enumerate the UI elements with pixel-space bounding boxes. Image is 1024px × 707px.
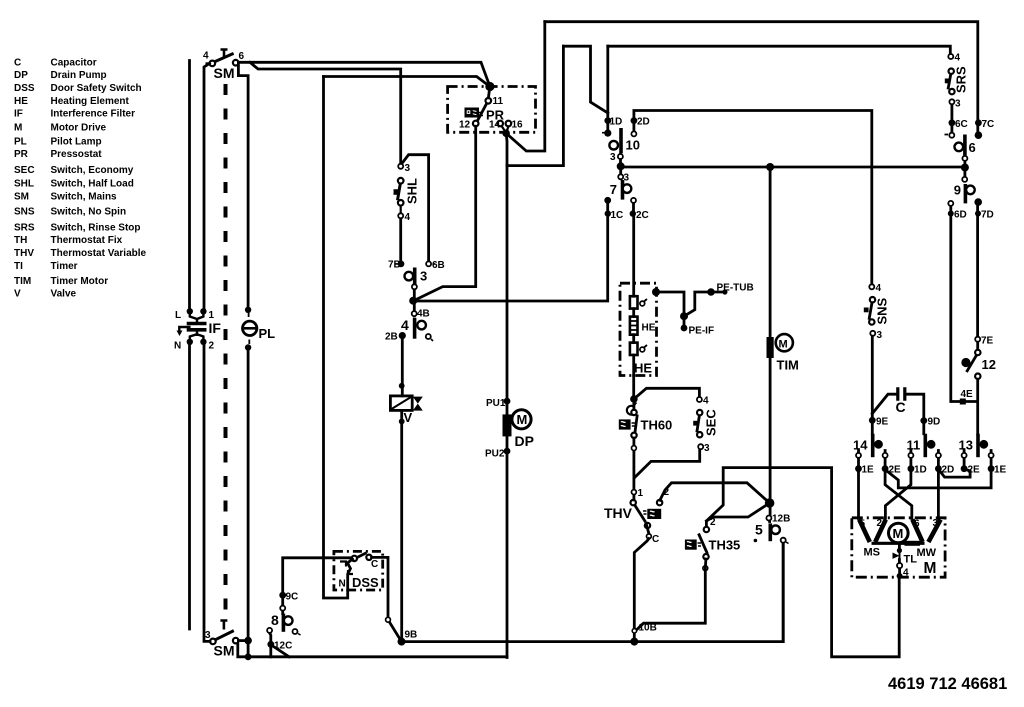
node: 9B junction [398,638,406,646]
svg-text:SM: SM [14,192,29,203]
svg-text:12C: 12C [274,641,292,652]
wire: contact7 terminals down [608,203,634,212]
svg-text:Pressostat: Pressostat [51,149,103,160]
terminal 6C [949,119,956,126]
svg-text:Switch, No Spin: Switch, No Spin [51,207,127,218]
timer contact 6 [963,135,967,156]
wire: bus2 SM bottom to DP column [238,644,507,657]
svg-text:1D: 1D [610,117,623,128]
svg-text:DSS: DSS [352,575,379,590]
wire: mains N lower left vertical [188,342,191,629]
wire: capacitor branch from SNS line [872,394,896,413]
wire: IF terminal 2 down to SM bottom contact 3 [204,342,210,641]
svg-text:7C: 7C [982,119,995,130]
wire: DSS left wire to 9C / contact 8 column [283,558,352,592]
svg-text:8: 8 [271,612,279,628]
wire: PR box junction down to contact 11 [488,87,490,98]
svg-text:L: L [175,310,181,321]
svg-text:1D: 1D [914,465,927,476]
svg-text:PU1: PU1 [486,398,506,409]
wire: SM6 to SHL line [250,62,401,164]
svg-text:Thermostat Variable: Thermostat Variable [51,248,147,259]
svg-text:N: N [174,341,181,352]
svg-text:11: 11 [907,438,921,453]
wire: SM bottom right contact stub to PL column [238,639,248,642]
timer contact 10 [604,117,611,124]
thermostat TH35 [699,527,710,571]
wire: line B left corner down to 1D [606,46,609,130]
wire: DSS feed vertical [324,77,348,599]
terminal 9E [869,417,876,424]
timer contact 7 [618,174,623,179]
svg-text:SRS: SRS [14,223,35,234]
door safety switch DSS internals [340,553,372,574]
interference filter IF [179,314,206,339]
wire: motor TL lead down inside box [898,546,901,575]
wire: contact10 lower stub [619,155,622,175]
node: junction 6/9 [961,164,969,172]
switch SHL (half load) [394,178,404,213]
node: PR top junction [485,82,494,91]
svg-text:TI: TI [14,261,23,272]
node: 10B junction [630,638,638,646]
svg-text:6: 6 [239,51,245,62]
wire: TIM to contact 5 junction [769,358,772,516]
svg-text:HE: HE [642,323,656,334]
svg-text:12: 12 [459,120,471,131]
svg-text:MW: MW [917,547,937,559]
door contact 12 [975,350,980,355]
svg-text:Interference Filter: Interference Filter [51,109,136,120]
svg-text:Valve: Valve [51,289,77,300]
svg-text:13: 13 [959,438,973,453]
svg-text:Drain Pump: Drain Pump [51,70,107,81]
wire: 2C column down into HE box [632,215,635,297]
svg-text:PE-TUB: PE-TUB [717,283,754,294]
wire: t4 to t5 2E link [939,469,970,477]
svg-text:16: 16 [512,120,524,131]
heating element HE dashed box [620,283,657,375]
svg-text:PL: PL [14,137,27,148]
svg-text:Door Safety Switch: Door Safety Switch [51,83,142,94]
svg-text:2B: 2B [385,332,398,343]
svg-text:SEC: SEC [14,165,35,176]
wire: SEC bottom bracket to THV column [635,449,700,478]
svg-text:SNS: SNS [14,207,35,218]
wire: x545 vertical down to PR 14/16 [506,22,545,151]
wire: top line A from x545 to 7C [545,22,978,132]
svg-text:4B: 4B [417,309,430,320]
wire: THV common C down to 10B [634,525,649,642]
wire: 12C column [270,633,271,657]
svg-text:12: 12 [982,357,996,372]
wire: 2B dot down to valve V [401,338,404,396]
svg-text:THV: THV [604,505,633,521]
pressostat PR dashed box [448,87,536,133]
svg-text:3: 3 [933,518,939,529]
wire: 6D column down to 4E bracket [951,206,978,402]
svg-text:TIM: TIM [777,358,799,373]
svg-text:6C: 6C [955,119,968,130]
wire: SRS 3 down to 6C [951,105,954,121]
wire: bus1 from 9B to contact5 column [402,543,784,642]
wire: TH60 bracket to SEC top [634,388,700,399]
timer contact 3 [398,261,405,268]
svg-text:10B: 10B [639,623,657,634]
motor M windings [859,520,940,543]
svg-text:SHL: SHL [405,178,420,204]
svg-text:PR: PR [14,149,29,160]
switch SM (mains, bottom half) [210,621,238,645]
wire: TH35 upper 2 to motor bottom loop [706,468,899,657]
svg-text:14: 14 [489,120,501,131]
switch SM (mains, top half) [206,50,239,67]
wire: pi-bar link [563,46,607,113]
switch SNS (no spin) [869,297,875,325]
svg-text:V: V [404,410,413,425]
svg-text:7: 7 [610,182,617,197]
wire: PE-TUB earth [656,292,725,316]
svg-text:2C: 2C [636,210,649,221]
wire: t2 2E to motor 6 crossing [885,458,912,519]
svg-text:9E: 9E [876,417,889,428]
svg-text:Timer Motor: Timer Motor [51,276,109,287]
svg-text:M: M [893,526,904,541]
svg-text:Pilot Lamp: Pilot Lamp [51,137,102,148]
wire: PR 14/16 down DP column to PU1 [505,133,509,452]
svg-text:2E: 2E [889,465,902,476]
wire: timer y167 line [621,166,965,169]
wire: t1 1E column to motor 5 [857,458,860,519]
wire: TH60 lower contact down to THV [633,438,636,500]
svg-text:7E: 7E [981,336,994,347]
svg-text:3: 3 [955,99,961,110]
wire: PE-IF stub [683,316,686,326]
wire: SHL switch to 7B [399,218,402,262]
svg-text:2: 2 [209,341,215,352]
wire: TIM column [769,167,772,337]
wire: PL column lower part to SM bottom area [247,351,250,658]
wire: contact5 junction stub / 12B [768,521,771,522]
svg-text:N: N [339,579,346,590]
wire: 7E to contact 12 upper [976,342,979,351]
wire: 2D terminal up and right to SNS [634,111,872,286]
wire: 12C diagonal to bus2 [272,646,289,657]
switch SEC (economy) [697,410,703,438]
svg-text:SRS: SRS [954,66,969,93]
svg-text:4: 4 [203,51,209,62]
svg-text:4: 4 [405,212,411,223]
svg-text:7B: 7B [388,260,401,271]
svg-text:7D: 7D [981,210,994,221]
node: junction below contact 3 [409,297,417,305]
svg-text:3: 3 [610,152,616,163]
wire: 6C to contact 6 [951,125,954,133]
svg-text:6: 6 [969,140,976,155]
svg-text:3: 3 [405,163,411,174]
svg-text:1C: 1C [611,210,624,221]
svg-text:TL: TL [904,554,918,566]
svg-text:4619 712 46681: 4619 712 46681 [888,675,1007,693]
svg-text:SM: SM [214,65,235,81]
wire: TH35 upper 2 to contact5 junction [706,503,769,521]
terminal 7C [975,119,982,126]
legend table [14,58,147,300]
svg-text:IF: IF [209,320,222,336]
wire: THV contact 2 to TH35 junction line [660,483,770,503]
svg-text:DP: DP [14,70,28,81]
terminal 4E [960,399,966,405]
wire: DP bottom to bus2 [506,452,509,658]
timer contact 11 [923,434,927,458]
pressostat PR contacts [473,98,511,131]
svg-text:1E: 1E [994,465,1007,476]
motor M dashed box [852,518,945,577]
timer contact 8 [279,592,286,599]
timer motor TIM [766,163,774,171]
svg-text:PE-IF: PE-IF [689,326,715,337]
svg-text:11: 11 [493,96,504,107]
timer contact 9 [962,177,967,182]
svg-text:2: 2 [877,518,883,529]
svg-text:9C: 9C [286,592,299,603]
svg-text:V: V [14,289,21,300]
svg-text:1: 1 [638,488,644,499]
svg-text:M: M [924,560,937,577]
svg-text:4E: 4E [961,389,974,400]
valve V [390,396,412,411]
svg-text:SM: SM [214,643,235,659]
wire: contact bars feed stubs 14 11 13 [859,451,992,466]
capacitor C [898,387,905,400]
wire: mains L input line (left outer vertical) [188,61,191,312]
door safety switch DSS dashed box [334,551,383,590]
wire: SHL branch to 6B column [401,155,429,262]
svg-text:3: 3 [205,630,211,641]
wire: DSS right wire down to 9B [372,557,402,641]
svg-text:4: 4 [703,396,709,407]
wire: TH35 lower down to 10B [634,559,706,632]
svg-text:4: 4 [876,283,882,294]
svg-text:6D: 6D [954,210,967,221]
wire: valve V down to 9B junction [400,410,403,641]
svg-text:Timer: Timer [51,261,78,272]
wire: DSS feed from PR top junction [324,77,490,87]
heating element HE resistors [630,296,638,355]
timer contact 4 [412,311,417,316]
svg-text:2: 2 [710,517,716,528]
pilot lamp PL [243,321,257,335]
wire: SNS 3 down to 9E and contact14 bar [871,336,874,434]
svg-text:M: M [517,412,528,427]
timer contact 14 [871,434,875,458]
svg-text:TH35: TH35 [709,538,741,553]
svg-text:5: 5 [755,522,763,538]
svg-text:TIM: TIM [14,276,31,287]
svg-text:6: 6 [914,519,920,530]
node: junction 10/7 [617,162,625,170]
wire: pi left leg down to DP column [507,46,563,165]
svg-text:M: M [779,339,788,351]
svg-text:Capacitor: Capacitor [51,58,97,69]
wire: junction to 2D/SNS via y300 to 1C column [413,215,608,302]
svg-text:Heating Element: Heating Element [51,96,130,107]
svg-text:C: C [371,559,378,570]
svg-text:Switch, Mains: Switch, Mains [51,192,118,203]
svg-text:HE: HE [634,361,652,376]
svg-text:SHL: SHL [14,179,34,190]
svg-text:6B: 6B [432,260,445,271]
wire: HE box bottom to TH60 junction [632,376,635,400]
wire: t4 2D to motor 3 [937,458,940,519]
svg-text:4: 4 [955,53,961,64]
svg-text:2D: 2D [942,465,955,476]
svg-text:Thermostat Fix: Thermostat Fix [51,235,123,246]
svg-text:TH60: TH60 [641,418,673,433]
thermostat TH60 [627,406,637,438]
svg-text:M: M [14,123,22,134]
wire: SM6 bracket to PL column [238,65,248,307]
timer contact 5 [765,498,775,508]
svg-text:Switch, Half Load: Switch, Half Load [51,179,134,190]
svg-text:HE: HE [14,96,28,107]
drain pump DP [504,398,511,405]
svg-text:C: C [652,534,659,545]
thermostat THV [631,500,663,539]
wire: contact3 lower stub to junction [413,284,416,298]
svg-text:3: 3 [420,269,427,284]
terminal 7E [975,337,980,342]
wire: capacitor right to 9D and contact11 bar [906,394,924,434]
wire: junction to contact 9 upper [964,167,967,177]
svg-text:4: 4 [903,568,909,579]
wire: junction down to 4B and contact 4 bar [413,301,414,316]
svg-text:9: 9 [954,183,961,198]
svg-text:10: 10 [626,138,640,153]
svg-text:Switch, Rinse Stop: Switch, Rinse Stop [51,223,141,234]
svg-text:TH: TH [14,235,27,246]
svg-text:SEC: SEC [704,409,719,436]
svg-text:THV: THV [14,248,34,259]
wire: 7D column down to 7E [976,206,979,337]
wire: contact6 lower stub to junction [964,161,967,168]
svg-text:3: 3 [704,443,710,454]
svg-text:C: C [896,399,906,415]
wire: contact5 lower right terminal down to bus1 [782,543,785,642]
wire: TH60 junction to upper contact [633,399,636,410]
timer contact 13 [976,434,980,458]
SM mechanical dashed link line [224,84,228,616]
svg-text:4: 4 [401,317,409,333]
svg-text:3: 3 [624,173,630,184]
wire: PR 12 column down [413,126,476,301]
svg-text:2E: 2E [968,465,981,476]
wire: t3 1D to motor 2 crossing [885,458,911,519]
svg-text:Motor Drive: Motor Drive [51,123,107,134]
svg-text:C: C [14,58,21,69]
svg-text:SNS: SNS [875,297,890,324]
thermal link TL [897,548,902,553]
svg-text:12B: 12B [772,514,790,525]
node: PE junction on HE box [652,288,660,296]
wire: t2 branch to t6 1E loop [886,470,992,488]
wire: DSS bottom entry [348,559,353,590]
motor terminals row [856,453,994,458]
svg-text:3: 3 [877,330,883,341]
svg-text:DSS: DSS [14,83,35,94]
wire: HE element internal links [632,309,635,376]
svg-text:14: 14 [853,438,868,453]
svg-text:9D: 9D [928,417,941,428]
wire: line B horizontal to SRS 4 [608,46,951,55]
switch SRS (rinse stop) [948,69,955,95]
wire: contact 8 column 9C to 12C [281,599,284,614]
svg-text:Switch, Economy: Switch, Economy [51,165,134,176]
wire: SM6 top line to PR 11 [238,62,490,86]
svg-text:9B: 9B [405,630,418,641]
svg-text:PL: PL [259,326,276,341]
terminal 9D [920,417,927,424]
wire: SM contact 4 to IF terminal 1 [204,63,210,311]
svg-text:2: 2 [664,487,670,498]
svg-text:MS: MS [864,547,881,559]
svg-text:1E: 1E [862,465,875,476]
svg-text:PU2: PU2 [485,449,505,460]
svg-text:5: 5 [860,519,866,530]
wire: contact12 lower to contact13 bar [976,379,979,434]
svg-text:DP: DP [515,433,534,449]
svg-text:IF: IF [14,109,23,120]
svg-text:2D: 2D [637,117,650,128]
